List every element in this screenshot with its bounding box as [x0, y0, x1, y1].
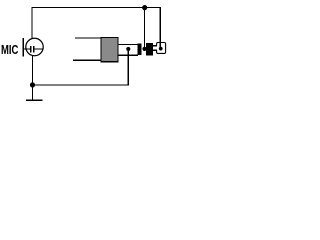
label MIC [1, 43, 18, 56]
wire top rail with corners (mic top to ring/tip) [32, 8, 160, 49]
jack plug sleeve barrel top line [118, 44, 138, 46]
jack plug insulator band 1 [138, 43, 142, 55]
pin tip contact dot [159, 47, 163, 51]
jack plug tip neck top line [153, 45, 157, 47]
jack plug body top edge [75, 37, 101, 39]
wire bottom rail (ground to sleeve) [33, 49, 129, 85]
wire mic bottom riser [32, 56, 34, 85]
microphone MIC body circle [26, 38, 43, 55]
wire ring branch vertical [144, 8, 146, 49]
node ring-branch junction dot [142, 5, 147, 10]
ground bar [26, 99, 43, 101]
jack plug tip outline [157, 43, 166, 54]
wire ground stem [32, 85, 34, 100]
pin sleeve contact dot [126, 47, 130, 51]
pin ring contact dot [142, 47, 146, 51]
capacitor element left lead [23, 48, 30, 50]
capacitor element right lead [34, 48, 43, 50]
capacitor plate left [30, 46, 32, 53]
jack plug body bottom edge [73, 59, 101, 61]
jack plug sleeve barrel bottom line [118, 54, 138, 56]
jack plug insulator band 2 [146, 43, 153, 56]
capacitor plate right [33, 46, 35, 53]
microphone back-plate bar [22, 38, 24, 57]
jack plug tip neck bottom line [153, 49, 157, 51]
jack plug strain-relief gray block [101, 37, 118, 61]
node ground junction dot [30, 82, 35, 87]
